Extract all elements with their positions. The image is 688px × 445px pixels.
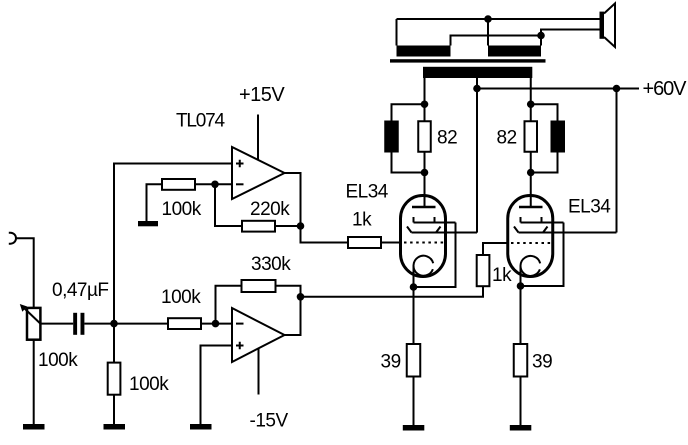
node V1 cathode junction bbox=[410, 283, 418, 291]
wire primary right winding legs bbox=[488, 19, 541, 46]
svg-text:EL34: EL34 bbox=[346, 182, 389, 203]
wire node B to speaker bbox=[541, 30, 600, 36]
tube V1 control grid g1 bbox=[404, 242, 444, 244]
tube V1 anode plate bbox=[412, 194, 436, 207]
wire U1 inverting input down to R4 bbox=[215, 184, 242, 226]
resistor R10 82 (right anode) bbox=[525, 104, 538, 172]
wire node A to R6 bbox=[114, 323, 168, 325]
node V2 cathode junction bbox=[517, 282, 525, 290]
wire V2 g3 to cathode bbox=[521, 223, 564, 287]
svg-text:82: 82 bbox=[497, 128, 517, 149]
wire wiper to capacitor bbox=[40, 323, 73, 325]
input jack J1 bbox=[9, 233, 16, 244]
svg-text:+60V: +60V bbox=[643, 78, 688, 100]
svg-text:-15V: -15V bbox=[250, 411, 289, 432]
svg-text:82: 82 bbox=[437, 128, 457, 149]
ground (R12) bbox=[510, 425, 532, 431]
op-amp U1 (TL074 upper) bbox=[232, 147, 285, 199]
wire secondary centre tap +60V rail bbox=[477, 78, 639, 233]
potentiometer R1 100k bbox=[20, 304, 41, 340]
svg-text:100k: 100k bbox=[129, 374, 169, 395]
node V2 anode junction bbox=[527, 169, 535, 177]
speaker LS1 bbox=[600, 3, 616, 47]
output transformer T1 primary wire node A bbox=[397, 19, 600, 46]
resistor R8 1k (grid stopper right, vertical) bbox=[477, 255, 490, 286]
wire primary left winding right leg bbox=[451, 36, 542, 46]
wire potentiometer bottom to ground bbox=[33, 340, 35, 424]
tube V2 control grid g1 bbox=[511, 242, 551, 244]
svg-text:EL34: EL34 bbox=[568, 197, 611, 218]
wire R2 to ground bbox=[113, 395, 115, 424]
wire V1 g3 to cathode bbox=[414, 223, 456, 288]
svg-text:220k: 220k bbox=[250, 199, 290, 220]
svg-text:1k: 1k bbox=[352, 210, 372, 231]
node +60V centre tap junction bbox=[473, 85, 481, 93]
node U2 inverting input junction bbox=[212, 320, 220, 328]
inductor L2 (ferrite, right) bbox=[551, 121, 566, 153]
tube V2 suppressor grid g3 bbox=[521, 217, 564, 223]
wire V2 anode lead bbox=[530, 173, 532, 207]
svg-text:TL074: TL074 bbox=[176, 111, 226, 132]
tube V1 EL34 envelope bbox=[401, 196, 446, 277]
wire +15V supply to op-amp U1 bbox=[257, 115, 259, 161]
tube V2 anode plate bbox=[519, 194, 543, 207]
tube V2 screen grid g2 bbox=[514, 227, 548, 233]
resistor R3 100k (U1 inverting input to ground) bbox=[162, 179, 195, 190]
svg-text:1k: 1k bbox=[492, 265, 512, 286]
node A junction bbox=[110, 320, 118, 328]
svg-text:+15V: +15V bbox=[239, 84, 285, 106]
svg-text:330k: 330k bbox=[251, 254, 291, 275]
inductor L1 (ferrite, left) bbox=[384, 121, 399, 153]
resistor R7 330k (U2 feedback) bbox=[242, 280, 276, 292]
ground (R2) bbox=[104, 424, 126, 430]
wire R5 to V1 grid bbox=[381, 242, 402, 244]
wire secondary right leg to V2 anode network bbox=[530, 78, 532, 104]
wire U1 output bbox=[285, 173, 349, 243]
node U1 output junction bbox=[297, 222, 305, 230]
wire U2 output bbox=[285, 297, 301, 335]
wire R4 right to U1 output node bbox=[275, 225, 301, 227]
wire R7 right to U2 output node bbox=[276, 286, 301, 297]
tube V1 suppressor grid g3 bbox=[414, 217, 456, 223]
resistor R2 100k (node A to ground) bbox=[108, 363, 121, 395]
op-amp U2 (TL074 lower) bbox=[232, 308, 285, 362]
transformer T1 primary winding right bbox=[488, 46, 541, 57]
node V2 anode network top junction bbox=[527, 100, 535, 108]
ground (R3) bbox=[138, 221, 158, 226]
svg-text:39: 39 bbox=[532, 352, 552, 373]
wire R12 to ground bbox=[520, 377, 522, 426]
wire U2 output to grid resistor R8 bbox=[301, 286, 484, 297]
svg-text:0,47µF: 0,47µF bbox=[52, 280, 109, 301]
wire V2 anode network top branch bbox=[531, 104, 558, 120]
wire V1 anode network top branch bbox=[392, 104, 425, 120]
resistor R11 39 (left cathode) bbox=[407, 344, 421, 377]
wire R7 left to U2 inverting input bbox=[216, 286, 242, 324]
wire R11 to ground bbox=[413, 377, 415, 426]
wire V1 cathode to R11 bbox=[413, 287, 415, 344]
wire U2 non-inverting input to ground bbox=[201, 346, 233, 425]
wire R3 right to U1 inverting input bbox=[195, 183, 232, 185]
wire V1 g2 to +60V bbox=[412, 232, 478, 234]
capacitor C1 0,47uF bbox=[73, 313, 84, 335]
tube V1 cathode bbox=[414, 256, 434, 287]
wire node A up to op-amp U1 non-inverting input bbox=[114, 164, 232, 324]
svg-text:100k: 100k bbox=[38, 350, 78, 371]
ground (potentiometer) bbox=[23, 424, 45, 430]
wire -15V supply to U2 bbox=[258, 349, 260, 395]
tube V1 screen grid g2 bbox=[407, 227, 441, 233]
wire secondary left leg to V1 anode network bbox=[424, 78, 426, 104]
wire R6 right to U2 inverting input bbox=[201, 323, 232, 325]
svg-text:100k: 100k bbox=[161, 287, 201, 308]
wire node A down to resistor R2 bbox=[113, 324, 115, 363]
transformer T1 secondary winding bbox=[423, 67, 532, 78]
resistor R9 82 (left anode) bbox=[418, 104, 431, 172]
ground (R11) bbox=[403, 425, 425, 431]
node V1 anode network top junction bbox=[421, 100, 429, 108]
node U2 output junction bbox=[297, 293, 305, 301]
resistor R12 39 (right cathode) bbox=[514, 344, 528, 377]
svg-text:100k: 100k bbox=[162, 199, 202, 220]
tube V2 cathode bbox=[521, 256, 541, 286]
node V1 anode junction bbox=[421, 169, 429, 177]
tube V2 EL34 envelope bbox=[508, 196, 553, 277]
node +60V rail junction bbox=[613, 85, 621, 93]
ground (U2 input) bbox=[190, 424, 212, 430]
node U1 inverting input junction bbox=[211, 181, 219, 189]
wire R3 left to ground bbox=[147, 184, 163, 221]
resistor R4 220k (U1 feedback) bbox=[242, 221, 275, 232]
wire jack to potentiometer top bbox=[16, 238, 34, 308]
wire capacitor to node A bbox=[84, 323, 114, 325]
node top wire junction bbox=[484, 15, 492, 23]
wire V2 g2 to +60V rail bbox=[519, 232, 617, 234]
transformer T1 primary winding left bbox=[397, 46, 451, 57]
node primary node B junction bbox=[537, 32, 545, 40]
svg-text:39: 39 bbox=[381, 352, 401, 373]
wire V1 anode lead bbox=[424, 173, 426, 207]
transformer T1 core bbox=[390, 59, 546, 62]
wire L2 bottom branch bbox=[531, 153, 558, 173]
wire V2 cathode to R12 bbox=[520, 286, 522, 344]
wire R8 top to V2 grid bbox=[483, 243, 509, 255]
resistor R5 1k (grid stopper left) bbox=[348, 237, 381, 248]
wire +60V rail down to V2 screen grid bbox=[616, 89, 618, 233]
resistor R6 100k (U2 input) bbox=[168, 318, 201, 329]
wire L1 bottom branch bbox=[392, 153, 425, 173]
